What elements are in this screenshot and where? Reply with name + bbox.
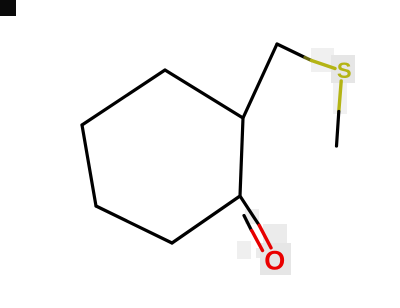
bond S-CH3 carbon half (black) bbox=[337, 112, 339, 147]
ring bond C3-C2 (lower right) bbox=[172, 196, 240, 243]
ring bond C2-C1 (right) bbox=[240, 118, 243, 196]
compression tile above carbonyl bond bbox=[245, 209, 259, 224]
compression tile left-below carbonyl bond bbox=[237, 241, 251, 259]
compression halo around atom O label bbox=[260, 243, 291, 275]
ketone C2=O double bond outer line carbon half (black) bbox=[240, 196, 259, 225]
carbocyclic ring skeleton (black bonds) bbox=[82, 44, 277, 243]
ring bond C6-C5 (upper left) bbox=[82, 70, 165, 125]
bond CH2-S transition segment (dark olive) bbox=[305, 58, 312, 61]
compression tile left of atom O label bbox=[256, 248, 263, 258]
bond C1-CH2 (to methylthiomethyl arm) bbox=[243, 44, 277, 118]
bond S-CH3 sulfur half (olive) bbox=[339, 81, 341, 112]
bond CH2-S carbon half (black) bbox=[277, 44, 305, 58]
ketone C2=O double bond inner line carbon half (black) bbox=[244, 216, 252, 231]
compression tile right of carbonyl double bond bbox=[263, 224, 287, 250]
ring bond C5-C4 (left) bbox=[82, 125, 96, 206]
ring bond C1-C6 (top) bbox=[165, 70, 243, 118]
compression tile along CH2-S bond bbox=[311, 48, 334, 72]
bond CH2-S sulfur half (olive) bbox=[312, 61, 336, 69]
watermark square top-left corner bbox=[0, 0, 16, 16]
ketone C2=O double bond outer line oxygen half (red) bbox=[259, 225, 271, 248]
svg-text:S: S bbox=[337, 58, 352, 83]
svg-text:O: O bbox=[264, 246, 285, 276]
compression trail along S-CH3 bond bbox=[333, 81, 347, 114]
ketone C2=O double bond inner line oxygen half (red) bbox=[252, 231, 263, 251]
ring bond C4-C3 (bottom) bbox=[96, 206, 172, 243]
compression halo around atom S label bbox=[331, 55, 355, 83]
